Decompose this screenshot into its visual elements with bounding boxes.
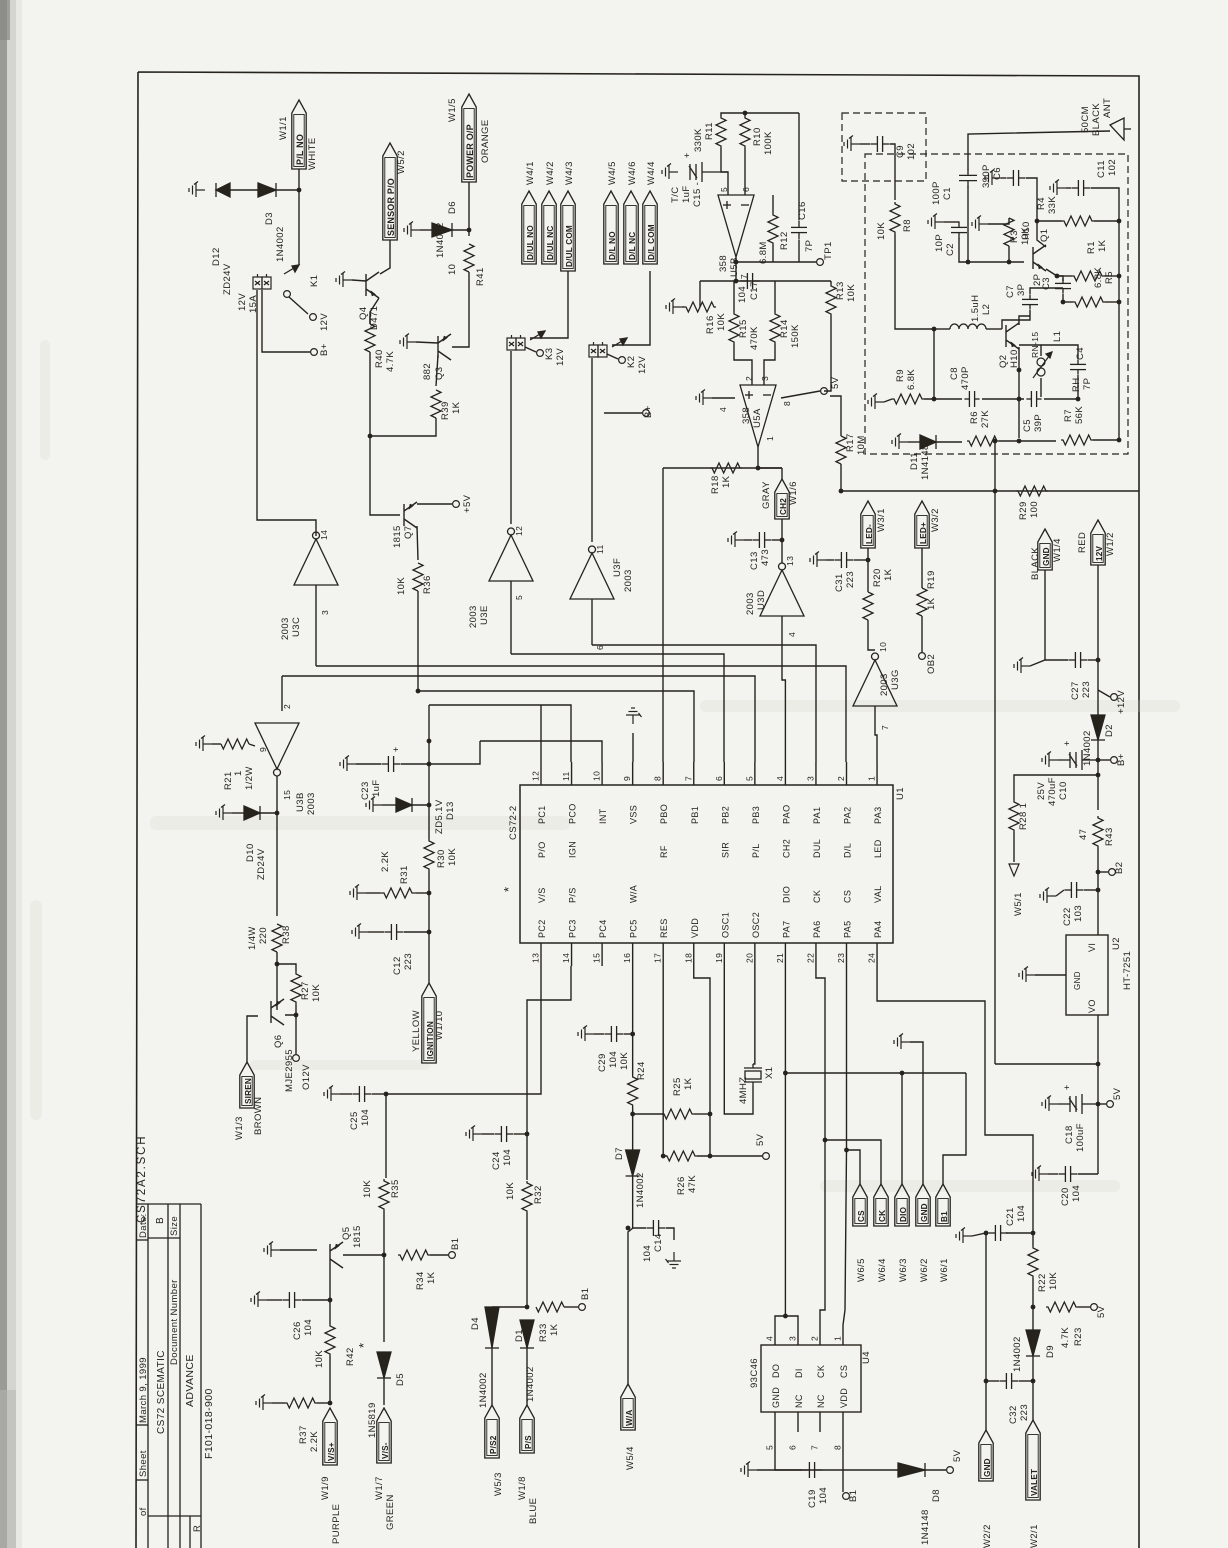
resistor R10 [740,116,750,148]
svg-text:5: 5 [514,595,524,600]
svg-text:470P: 470P [960,366,971,390]
svg-text:U4: U4 [861,1351,872,1364]
terminal OB2 [919,653,926,660]
node [1096,888,1101,893]
svg-text:2003: 2003 [280,617,291,640]
wire [420,229,432,231]
svg-text:47K: 47K [687,1175,698,1193]
wire [781,519,783,563]
node [844,1148,849,1153]
wire [417,503,452,505]
wire [1097,740,1099,810]
svg-text:R13: R13 [835,281,846,300]
svg-text:D3: D3 [264,212,275,225]
svg-text:V/S+: V/S+ [327,1442,336,1461]
resistor R41 [464,244,474,272]
resistor R16 [684,302,716,312]
wire [1088,659,1098,661]
svg-text:102: 102 [1107,159,1118,176]
svg-text:19: 19 [714,953,724,963]
capacitor C6 [1006,170,1025,186]
svg-text:P/L NO: P/L NO [295,134,305,165]
capacitor C8 [964,391,979,407]
wire [734,344,752,385]
wire [492,1306,527,1308]
svg-text:4MHZ: 4MHZ [738,1077,749,1104]
node [384,1092,389,1097]
wire [867,548,869,592]
wire [247,1016,258,1062]
svg-text:1.5uH: 1.5uH [970,295,981,322]
svg-text:4: 4 [718,407,728,412]
wire [772,195,774,213]
svg-text:W5/3: W5/3 [493,1472,504,1496]
wire CS branch [847,1150,861,1184]
svg-text:Q1: Q1 [1039,229,1050,242]
svg-text:C17: C17 [749,281,760,300]
port arrow VALET (W2/1) [1026,1420,1040,1500]
svg-text:ZD24V: ZD24V [256,848,267,880]
wire [1032,1356,1034,1420]
wire [212,743,221,745]
svg-text:102: 102 [906,143,917,160]
wire [295,1015,297,1054]
svg-text:1K: 1K [451,401,462,414]
diode D8 [898,1463,925,1477]
svg-text:1: 1 [765,436,775,441]
node [275,811,280,816]
wire [1078,1306,1090,1308]
resistor R4 [1062,216,1094,226]
terminal 5V (R23) [1091,1304,1098,1311]
node [1117,274,1122,279]
wire pin22 down [816,966,825,1140]
wire C9 to R8 [890,144,895,200]
svg-text:223: 223 [403,953,414,970]
node [734,260,739,265]
wire R28 branch [1014,775,1098,800]
wire R8 to L2 [895,234,934,329]
wire DO from DIO [775,1316,785,1325]
svg-text:RH: RH [1071,377,1082,392]
terminal 5V (U5A) [821,388,828,395]
pin 7 stub (U1) [693,762,695,785]
inverter U3F [570,546,614,599]
wire K1 to U3C [257,290,316,536]
svg-text:W6/1: W6/1 [939,1258,950,1282]
svg-text:18: 18 [683,953,693,963]
wire [910,1042,923,1184]
wire pin14 down [527,966,571,1118]
wire [860,143,870,145]
ground (C6) [985,170,1001,186]
wire [1066,187,1071,189]
svg-text:R18: R18 [710,475,721,494]
wire [1098,1103,1106,1105]
ground (D13) [366,797,382,813]
node [416,689,421,694]
wire [564,1306,578,1308]
svg-text:2: 2 [810,1336,820,1341]
svg-text:1815: 1815 [392,525,403,548]
resistor R12 [768,213,778,245]
ground (D6) [404,222,420,238]
svg-text:R26: R26 [676,1176,687,1195]
svg-text:10K: 10K [396,577,407,595]
svg-text:23: 23 [836,953,846,963]
resistor R7 [1061,435,1093,445]
wire [491,1348,493,1405]
svg-text:B+: B+ [643,405,654,418]
svg-text:PA4: PA4 [873,920,883,938]
pin 23 stub (U1) [846,943,848,966]
svg-text:Size: Size [169,1216,180,1236]
svg-text:LED+: LED+ [919,522,928,544]
wire [369,316,371,324]
port arrow CS (W6/5) [853,1184,867,1226]
svg-text:R23: R23 [1073,1327,1084,1346]
wire [967,186,969,262]
svg-text:C18: C18 [1064,1125,1075,1144]
svg-text:100uF: 100uF [1075,1123,1086,1152]
svg-text:PBO: PBO [659,804,669,824]
ground (D10) [216,805,232,821]
resistor (R18 left) wire [758,467,782,469]
wire [774,281,776,312]
node [743,111,748,116]
wire [1098,759,1110,761]
pin 11 stub (U1) [571,762,573,785]
svg-text:B2: B2 [1114,862,1125,874]
ground (C14) [666,1252,682,1268]
resistor R33 [536,1302,564,1312]
svg-text:BROWN: BROWN [253,1097,264,1135]
wire [525,347,536,352]
transistor Q6 [271,999,284,1025]
wire [289,297,308,314]
svg-text:Document Number: Document Number [169,1279,180,1365]
svg-text:R22: R22 [1037,1273,1048,1292]
node [823,1138,828,1143]
svg-text:2.2K: 2.2K [309,1431,320,1452]
relay K3 contact [530,331,545,340]
svg-text:2: 2 [282,704,292,709]
wire [1002,310,1030,329]
svg-text:C15 -: C15 - [692,182,703,207]
svg-text:RF: RF [659,845,669,858]
wire [988,218,1009,224]
svg-text:CK: CK [816,1365,826,1378]
capacitor C29 [604,1026,623,1042]
svg-text:6: 6 [788,1445,798,1450]
capacitor C9 [870,136,889,152]
port arrow D/UL COM (W4/3) [561,191,575,271]
svg-text:13: 13 [531,953,541,963]
ground (C24) [466,1126,482,1142]
diode D3 [258,183,276,197]
svg-text:PA1: PA1 [812,806,822,824]
node [294,1013,299,1018]
wire [594,1033,604,1035]
svg-text:V/S: V/S [537,887,547,903]
wire [986,1380,999,1382]
svg-text:TP1: TP1 [823,241,834,260]
wire [232,812,244,814]
ground (R21) [196,736,212,752]
svg-text:W5/1: W5/1 [1013,892,1024,916]
node [427,739,432,744]
svg-text:INT: INT [598,808,608,824]
svg-text:104: 104 [737,286,748,303]
ground (R9) [868,394,884,410]
svg-text:100K: 100K [763,131,774,155]
transistor Q4 [366,272,379,298]
svg-text:7: 7 [810,1445,820,1450]
svg-text:5: 5 [765,1445,775,1450]
svg-text:10K: 10K [716,313,727,331]
port arrow CK (W6/4) [874,1184,888,1226]
ground (C13) [728,532,744,548]
node [932,397,937,402]
ground (C15) [662,164,678,180]
svg-text:P/L: P/L [751,843,761,858]
svg-text:GND: GND [920,1203,929,1222]
relay K1 switch pole [284,291,291,298]
wire [772,245,774,262]
diode D10 [244,806,260,820]
svg-text:W6/5: W6/5 [856,1258,867,1282]
svg-text:C4: C4 [1075,347,1086,360]
node [984,1231,989,1236]
svg-text:33K: 33K [1047,196,1058,214]
wire [843,1150,847,1325]
capacitor C10 (polarized) [1058,750,1098,770]
ground (U5A pin4) [696,390,712,406]
wire [267,1299,282,1301]
svg-text:CK: CK [878,1210,887,1222]
wire [452,229,469,231]
wire pin18 jog [694,966,710,1156]
terminal B2 [1109,869,1116,876]
wire bus U3E to pin6 [511,654,724,762]
wire [632,733,634,762]
svg-text:PB3: PB3 [751,806,761,824]
svg-text:473: 473 [760,549,771,566]
node [467,228,472,233]
wire [370,298,379,324]
svg-text:SIR: SIR [720,842,730,858]
resistor R21 [221,739,249,749]
pin 6 stub (U1) [723,762,725,785]
ground (D12) [189,182,205,198]
wire [329,1356,331,1403]
svg-text:DO: DO [771,1364,781,1378]
svg-text:U3F: U3F [612,558,623,577]
svg-text:RES: RES [659,918,669,938]
svg-text:330K: 330K [693,128,704,152]
wire [842,1470,844,1492]
svg-text:CS72-2: CS72-2 [508,805,519,840]
svg-text:D11: D11 [909,452,920,470]
terminal B+ [311,349,318,356]
wire antenna [968,131,1110,170]
diode D13 [396,798,412,812]
capacitor C17 [740,273,759,289]
pin 10 stub (U1) [601,762,603,785]
wire [1094,220,1119,222]
wire [1044,398,1078,400]
wire [383,1378,385,1405]
capacitor C14 [646,1220,665,1236]
wire [526,1213,528,1307]
wire [1105,301,1119,303]
svg-text:1: 1 [833,1336,843,1341]
relay K3 coil plug [507,335,525,350]
svg-text:BLACK: BLACK [1030,547,1041,580]
svg-text:C6: C6 [992,167,1003,180]
svg-text:R5: R5 [1104,271,1115,284]
ground (U2) [1019,967,1035,983]
inverter U3G [853,653,897,706]
port arrow SIREN (W1/3) [240,1062,254,1108]
resistor R43 [1093,816,1103,848]
svg-text:R27: R27 [300,981,311,1000]
title block box [136,1204,201,1548]
resistor R6 [967,436,999,446]
port arrow P/L NO (W1/1) [292,100,306,169]
wire [230,189,258,191]
wire RF out down [994,491,996,1064]
ground (C26) [251,1292,267,1308]
wire [430,1254,448,1256]
port arrow IGNITION (W1/10) [422,983,436,1063]
wire [1041,345,1078,359]
svg-text:VO: VO [1087,999,1097,1013]
capacitor C4 [1070,359,1086,374]
wire [1104,275,1119,277]
svg-text:+: + [1062,1084,1072,1090]
svg-text:1N4002: 1N4002 [275,226,286,262]
svg-text:6.8K: 6.8K [1093,267,1104,288]
svg-text:PAO: PAO [781,804,791,824]
node [756,466,761,471]
svg-text:U3E: U3E [479,605,490,625]
svg-text:H10: H10 [1021,221,1032,240]
svg-text:5: 5 [719,187,729,192]
terminal 5V (D8) [947,1467,954,1474]
node [1007,260,1012,265]
svg-text:1uF: 1uF [371,779,382,797]
wire [798,240,800,262]
svg-text:C24: C24 [491,1151,502,1170]
wire [663,1155,667,1157]
svg-text:D6: D6 [447,201,458,214]
svg-text:10K: 10K [876,222,887,240]
wire [276,189,299,191]
wire [416,892,429,894]
svg-text:W1/2: W1/2 [1105,532,1116,556]
terminal 5V (VDD) [763,1153,770,1160]
svg-text:1N4002: 1N4002 [1012,1336,1023,1372]
node [427,930,432,935]
resistor R15 [729,312,739,344]
wire [820,1140,825,1325]
wire [1008,246,1010,262]
wire top bus [721,113,799,116]
svg-text:X1: X1 [764,1067,775,1079]
svg-text:R6: R6 [969,411,980,424]
svg-text:16: 16 [622,953,632,963]
wire [385,1094,387,1178]
svg-text:12V: 12V [637,356,648,374]
ground (C21) [956,1228,972,1244]
svg-text:20: 20 [744,953,754,963]
svg-text:W6/2: W6/2 [919,1258,930,1282]
wire [936,441,962,443]
svg-text:PC5: PC5 [629,919,639,938]
svg-text:O12V: O12V [301,1064,312,1090]
wire [944,221,959,223]
svg-text:1K: 1K [683,1077,694,1090]
wire [1030,288,1063,294]
svg-text:9: 9 [622,776,632,781]
node [525,1132,530,1137]
wire [404,931,429,933]
svg-text:CS: CS [839,1365,849,1378]
svg-text:R33: R33 [538,1323,549,1342]
svg-text:2003: 2003 [468,605,479,628]
svg-text:PC3: PC3 [568,919,578,938]
svg-text:104: 104 [608,1051,619,1068]
wire [1084,889,1098,891]
wire [285,1005,296,1015]
svg-text:HT-7251: HT-7251 [1122,951,1133,990]
terminal B1 (R33) [579,1304,586,1311]
wire [1056,890,1064,896]
capacitor C3 [1055,278,1071,293]
wire W4/4 to K2 [612,271,650,345]
wire [1018,370,1020,438]
svg-text:R8: R8 [902,219,913,232]
wire [526,1348,528,1405]
wire [1057,276,1063,281]
node [1031,1305,1036,1310]
svg-text:PC1: PC1 [537,805,547,824]
wire [1097,690,1099,715]
node [427,803,432,808]
node [1117,300,1122,305]
svg-text:of: of [138,1507,149,1516]
svg-text:NC: NC [794,1394,804,1408]
pin 18 stub (U1) [693,943,695,966]
wire [1118,302,1120,440]
port arrow D/UL NO (W4/1) [522,191,536,264]
wire [884,399,892,402]
svg-text:C12: C12 [392,956,403,975]
wire [526,1118,528,1180]
svg-text:K3: K3 [544,348,555,360]
wire [764,344,775,385]
svg-text:+12V: +12V [1116,690,1127,714]
wire [412,804,429,806]
wire [1118,221,1120,302]
svg-text:OSC1: OSC1 [720,912,730,938]
svg-text:C14: C14 [653,1233,664,1252]
svg-text:B+: B+ [319,343,330,356]
svg-text:R35: R35 [390,1179,401,1198]
wire [1097,1104,1099,1174]
port arrow LED+ (W3/2) [915,501,929,548]
